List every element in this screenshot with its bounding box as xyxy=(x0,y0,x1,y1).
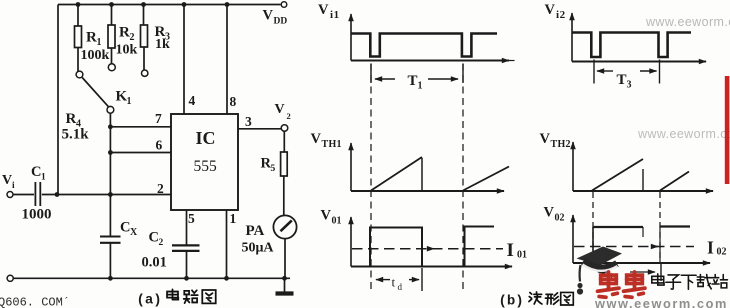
svg-text:5: 5 xyxy=(188,211,195,226)
svg-text:2: 2 xyxy=(287,111,291,121)
svg-text:C: C xyxy=(149,230,159,246)
svg-text:50μA: 50μA xyxy=(242,241,275,256)
svg-text:0.01: 0.01 xyxy=(142,255,167,271)
svg-text:i2: i2 xyxy=(556,9,566,21)
svg-text:10k: 10k xyxy=(116,43,138,58)
svg-text:01: 01 xyxy=(332,216,342,227)
svg-text:1: 1 xyxy=(418,81,423,92)
svg-text:V: V xyxy=(544,205,555,221)
svg-text:555: 555 xyxy=(194,158,218,175)
svg-text:1: 1 xyxy=(127,96,132,107)
svg-text:01: 01 xyxy=(517,250,527,261)
svg-text:R: R xyxy=(66,111,77,127)
svg-text:V: V xyxy=(311,131,322,147)
svg-text:IC: IC xyxy=(196,128,216,148)
svg-text:1: 1 xyxy=(230,211,237,226)
svg-text:d: d xyxy=(398,282,403,292)
svg-text:C: C xyxy=(31,164,41,180)
svg-text:02: 02 xyxy=(555,213,565,224)
svg-text:4: 4 xyxy=(189,93,196,108)
svg-text:(a): (a) xyxy=(137,293,162,308)
svg-text:5: 5 xyxy=(271,164,276,174)
svg-text:www.eeworm.com: www.eeworm.com xyxy=(594,296,728,308)
svg-text:C: C xyxy=(120,220,130,236)
svg-text:1: 1 xyxy=(97,37,102,48)
svg-text:www.eeworm.com: www.eeworm.com xyxy=(637,127,730,141)
svg-text:V: V xyxy=(263,8,274,24)
svg-text:2: 2 xyxy=(157,181,164,196)
svg-text:8: 8 xyxy=(230,94,237,109)
svg-text:1: 1 xyxy=(41,173,46,183)
svg-text:i: i xyxy=(12,181,15,191)
svg-text:6: 6 xyxy=(156,138,163,153)
svg-text:X: X xyxy=(130,227,138,238)
svg-text:V: V xyxy=(545,2,556,18)
svg-text:T: T xyxy=(408,73,418,89)
svg-text:T: T xyxy=(617,72,627,88)
svg-text:1k: 1k xyxy=(155,37,170,52)
svg-text:1000: 1000 xyxy=(22,207,52,223)
svg-text:TH1: TH1 xyxy=(322,139,342,150)
svg-text:DD: DD xyxy=(274,17,288,27)
svg-text:V: V xyxy=(2,173,12,188)
svg-text:02: 02 xyxy=(717,247,727,258)
svg-text:V: V xyxy=(321,208,332,224)
svg-text:5.1k: 5.1k xyxy=(62,127,90,143)
svg-text:I: I xyxy=(707,238,714,258)
svg-text:V: V xyxy=(318,2,329,18)
svg-text:R: R xyxy=(86,30,97,46)
svg-text:2: 2 xyxy=(130,32,135,43)
svg-text:I: I xyxy=(507,240,514,261)
svg-text:100k: 100k xyxy=(81,48,110,63)
svg-text:7: 7 xyxy=(155,111,162,126)
svg-text:3: 3 xyxy=(245,114,252,129)
svg-text:PA: PA xyxy=(246,223,265,239)
svg-text:2: 2 xyxy=(159,238,164,248)
svg-text:Q606. COM´: Q606. COM´ xyxy=(0,296,70,308)
svg-text:(b): (b) xyxy=(499,294,524,308)
svg-text:3: 3 xyxy=(627,80,632,91)
svg-text:V: V xyxy=(275,102,285,117)
svg-text:V: V xyxy=(540,131,551,147)
svg-text:i1: i1 xyxy=(330,9,340,21)
svg-text:t: t xyxy=(392,275,396,290)
svg-text:R: R xyxy=(119,25,130,41)
svg-text:TH2: TH2 xyxy=(551,139,571,150)
svg-text:www.eeworm.com: www.eeworm.com xyxy=(645,15,730,29)
